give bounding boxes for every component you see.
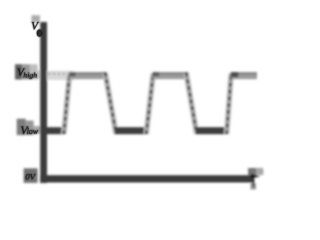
halo blocks around Vlow label [17, 119, 26, 135]
x-axis [40, 175, 254, 182]
svg-text:o: o [37, 27, 43, 39]
waveform low segment 3 [196, 127, 227, 134]
waveform rising edge 3 [227, 74, 232, 135]
waveform falling edge 2 column [186, 73, 196, 134]
corner blob high2 left [153, 72, 160, 76]
dashed leader line Vhigh [44, 73, 73, 75]
waveform falling edge 1 column [105, 73, 116, 134]
svg-text:0V: 0V [25, 171, 36, 181]
halo blocks around Vhigh label [15, 64, 22, 79]
waveform high segment 3 [231, 72, 257, 79]
halo block around 0V label [24, 168, 38, 183]
corner blob high1 left [69, 72, 76, 76]
waveform rising edge 1 [64, 74, 70, 135]
corner blob high2 right [185, 72, 190, 76]
corner blob high3 left [231, 72, 239, 77]
waveform rising edge 3 column [227, 74, 232, 135]
waveform rising edge 1 column [64, 74, 70, 135]
x-axis arrowhead [251, 174, 261, 179]
waveform falling edge 2 [186, 73, 196, 134]
halo block above Vo label [31, 15, 40, 22]
label Vo subscript blob [37, 29, 43, 36]
svg-text:low: low [27, 127, 39, 136]
halo blocks around x-axis arrow and t [248, 168, 256, 175]
waveform rising edge 2 column [146, 74, 153, 135]
waveform falling edge 1 [105, 73, 116, 134]
corner blob high1 right [103, 72, 108, 76]
waveform low segment 1 [43, 127, 65, 134]
waveform high segment 1 [69, 72, 107, 79]
waveform high segment 2 [153, 72, 189, 79]
svg-text:high: high [23, 70, 37, 79]
label t [253, 179, 254, 186]
dashed leader halo band at Vhigh level [43, 71, 74, 80]
y-axis [40, 22, 47, 183]
label Vo subscript blob [37, 29, 43, 36]
waveform rising edge 2 [146, 74, 153, 135]
waveform low segment 2 [115, 127, 147, 134]
